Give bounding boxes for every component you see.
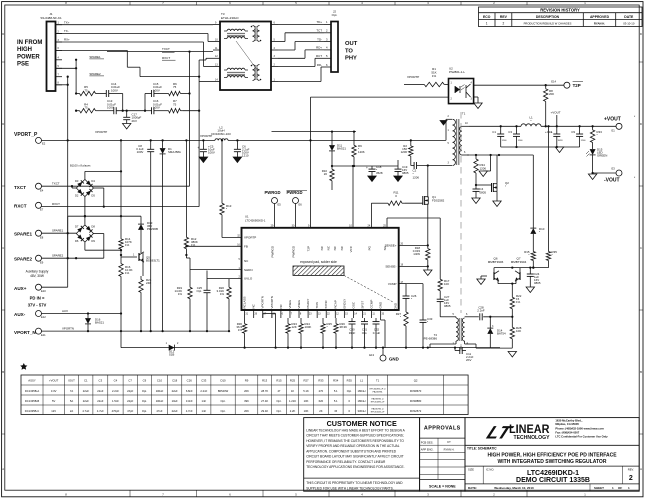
transformer T3 ETH1-230LD box (220, 22, 271, 91)
svg-text:FDS2582: FDS2582 (432, 199, 445, 203)
svg-text:SHEET: SHEET (594, 486, 604, 490)
ground below U2 (474, 103, 482, 108)
svg-text:E3: E3 (612, 167, 616, 171)
wire T3.2 to J2.5 (278, 66, 315, 68)
svg-text:VPORT_P: VPORT_P (14, 132, 38, 138)
svg-text:D9: D9 (91, 239, 95, 243)
ground left of Q6 (481, 275, 487, 277)
T3 pin 14 stub (213, 81, 220, 83)
Linear Technology logo (482, 423, 517, 443)
wire SPARE2 (42, 257, 104, 259)
svg-text:TXCT: TXCT (14, 185, 26, 190)
T3 internal diagonal lead (236, 41, 258, 71)
svg-text:T1: T1 (376, 378, 380, 382)
resistor R26 38.3K (335, 318, 337, 321)
svg-text:DC1335B-B: DC1335B-B (25, 399, 40, 403)
wire C14 corner down (122, 94, 124, 111)
capacitor C17 1000pF 2KV (126, 110, 128, 112)
svg-text:ECO: ECO (483, 15, 491, 19)
wire T2 secondary bottom (464, 341, 466, 344)
svg-text:C4: C4 (114, 378, 118, 382)
svg-text:1630 McCarthy Blvd.,: 1630 McCarthy Blvd., (555, 418, 582, 422)
svg-text:Opt.: Opt. (197, 289, 203, 293)
wire R12 to FB (185, 252, 187, 258)
svg-text:S1B: S1B (169, 353, 175, 357)
svg-text:180nH: 180nH (358, 389, 366, 393)
J1 pin 7 stub (56, 76, 63, 78)
capacitor C1 1206 (500, 126, 502, 134)
resistor R9 1206 (353, 130, 355, 132)
resistor R22 15 1% (511, 284, 513, 294)
svg-text:PCB DES.: PCB DES. (421, 440, 434, 444)
svg-text:0805: 0805 (534, 281, 541, 285)
svg-text:5.1K: 5.1K (303, 389, 309, 393)
wire Q6/Q7 base bar (488, 271, 490, 281)
svg-text:TECHNOLOGY APPLICATIONS ENGINE: TECHNOLOGY APPLICATIONS ENGINEERING FOR … (306, 465, 404, 469)
svg-text:2: 2 (503, 22, 505, 26)
svg-text:PA2469NL: PA2469NL (373, 390, 384, 393)
svg-text:Opt.: Opt. (142, 389, 147, 393)
wire -VOUT (593, 172, 616, 174)
svg-text:AUX: AUX (62, 309, 68, 313)
svg-text:DATE:: DATE: (468, 486, 477, 490)
wire RXCT vertical (198, 60, 200, 207)
svg-text:E1: E1 (612, 129, 616, 133)
svg-text:RD-: RD- (317, 63, 322, 67)
resistor R23 12K (287, 318, 289, 321)
diode D11 BAS21 (331, 130, 333, 132)
svg-text:1206: 1206 (502, 140, 508, 142)
T3 pin 3 stub (271, 57, 278, 59)
svg-text:B1100 x 8 places: B1100 x 8 places (70, 164, 91, 168)
J1 pin 8 stub (56, 84, 63, 86)
diode bridge D3 D4 D2 D5 (76, 179, 85, 188)
svg-text:E5: E5 (278, 203, 282, 207)
svg-text:2.2nF: 2.2nF (200, 389, 207, 393)
svg-text:20K: 20K (549, 92, 554, 96)
svg-text:Opt.: Opt. (332, 13, 338, 17)
svg-text:Opt.: Opt. (347, 389, 352, 393)
wire aux left vertical (67, 216, 69, 287)
wire T3.6 to J2.1 (278, 23, 324, 25)
svg-text:RYAN H.: RYAN H. (444, 447, 455, 451)
svg-text:SPARE1: SPARE1 (14, 231, 32, 236)
svg-text:24K: 24K (146, 281, 151, 285)
svg-text:100: 100 (444, 282, 449, 286)
svg-text:EPC3410G-LF: EPC3410G-LF (371, 411, 385, 413)
resistor R25 (322, 318, 324, 321)
svg-text:TD+: TD+ (316, 20, 322, 24)
resistor R34 1206 (475, 155, 477, 159)
svg-text:10K: 10K (304, 399, 309, 403)
J1 pin 4 stub (56, 59, 63, 61)
capacitor C11 2.2nF 2KV (455, 350, 466, 352)
junction dots bottom rail (243, 346, 245, 348)
svg-text:6.8nF: 6.8nF (186, 389, 193, 393)
svg-text:1206: 1206 (358, 150, 365, 154)
wire collector bar (494, 267, 549, 269)
svg-text:DC1335B-A: DC1335B-A (25, 389, 40, 393)
svg-text:D5: D5 (91, 194, 95, 198)
svg-text:VCC: VCC (349, 245, 353, 252)
diode D16 BAS21 (87, 314, 89, 319)
wire T3.5 to J2.2 (278, 41, 285, 43)
svg-text:LTC4269IDKD-1: LTC4269IDKD-1 (527, 470, 579, 477)
svg-text:1.5nF: 1.5nF (112, 399, 119, 403)
terminal -VOUT E3 (616, 170, 622, 176)
transformer T1 secondary winding (460, 126, 462, 155)
svg-text:HIGH: HIGH (17, 47, 32, 53)
wire TXCT to bridge1 (42, 185, 190, 187)
svg-text:1206: 1206 (401, 150, 408, 154)
ground below C24 (526, 287, 534, 292)
wire x121 column (120, 140, 122, 236)
svg-text:RXCT: RXCT (162, 56, 170, 60)
svg-text:20K: 20K (244, 389, 249, 393)
svg-text:Opt.: Opt. (276, 409, 281, 413)
wire cap ground rail (501, 146, 580, 148)
svg-text:RYAN H.: RYAN H. (594, 22, 605, 26)
svg-text:1206: 1206 (480, 167, 487, 171)
svg-text:DO1606C-103: DO1606C-103 (211, 132, 231, 136)
svg-text:1/2W: 1/2W (413, 252, 420, 256)
capacitor C31 Opt (364, 318, 366, 322)
svg-text:PDZ36B: PDZ36B (147, 227, 158, 231)
T3 pin 6 stub (271, 24, 278, 26)
inductor L2 10uH DO1606C-103 (215, 139, 228, 141)
svg-text:OUT: OUT (345, 41, 358, 47)
svg-text:2.2nF: 2.2nF (477, 309, 485, 313)
resistor R14 107K 1% (120, 236, 122, 239)
wire Q1 drain-source vertical (427, 166, 429, 198)
wire SPARE1 to bridge2 (42, 232, 77, 234)
svg-text:1: 1 (486, 22, 488, 26)
svg-text:E8: E8 (40, 235, 44, 239)
wire secondary top rail (469, 125, 521, 127)
svg-text:33pF: 33pF (349, 331, 356, 335)
wire SG chain down (439, 218, 441, 276)
size ic no rev row (482, 466, 484, 484)
svg-text:Opt.: Opt. (221, 399, 226, 403)
T3 pin 5 stub (271, 41, 278, 43)
ground below C4 (472, 198, 480, 203)
svg-text:LTC Confidential-For Customer: LTC Confidential-For Customer Use Only (555, 434, 608, 438)
svg-text:GREEN: GREEN (597, 154, 607, 158)
wire T1 pin6 output return (467, 154, 533, 156)
svg-text:22uF: 22uF (172, 389, 178, 393)
svg-text:VNEG: VNEG (288, 299, 292, 308)
svg-text:SCALE = NONE: SCALE = NONE (429, 484, 456, 488)
wire T3.1 to J2.6 (278, 81, 321, 83)
resistor R13 to VPORTP pin (221, 140, 223, 200)
svg-text:SUPPLIED FOR USE WITH LINEAR T: SUPPLIED FOR USE WITH LINEAR TECHNOLOGY … (306, 486, 394, 490)
svg-text:TD-: TD- (317, 37, 322, 41)
svg-text:APPROVED: APPROVED (590, 15, 610, 19)
svg-text:FDS2572: FDS2572 (410, 409, 422, 413)
svg-text:D10: D10 (220, 378, 226, 382)
svg-text:L1: L1 (360, 378, 364, 382)
svg-text:620: 620 (319, 399, 324, 403)
wire RX+ J1.3 to T3.13 (56, 41, 204, 43)
wire C27 to T2 (440, 316, 452, 318)
svg-text:75: 75 (84, 88, 88, 92)
svg-text:DEMO CIRCUIT 1335B: DEMO CIRCUIT 1335B (516, 477, 590, 484)
T3 pin 13 stub (213, 66, 220, 68)
svg-text:38.3K: 38.3K (340, 325, 348, 329)
wire rail to T1 pin2 (445, 119, 447, 140)
svg-text:VPORTN: VPORTN (270, 296, 274, 308)
svg-text:100V: 100V (107, 106, 114, 110)
svg-text:E7: E7 (40, 208, 44, 212)
svg-text:R15: R15 (276, 378, 282, 382)
svg-text:Opt.: Opt. (362, 331, 368, 335)
svg-text:CIRCUIT THAT MEETS CUSTOMER-SU: CIRCUIT THAT MEETS CUSTOMER-SUPPLIED SPE… (306, 434, 404, 438)
svg-text:0.1uF: 0.1uF (373, 331, 381, 335)
svg-text:POWER: POWER (17, 54, 40, 60)
svg-text:PWRGD: PWRGD (265, 190, 281, 195)
svg-text:B: B (640, 370, 642, 374)
svg-text:R25: R25 (290, 378, 296, 382)
J1 pin 3 stub (56, 41, 63, 43)
svg-text:APP ENG.: APP ENG. (421, 448, 434, 452)
wire J1.6 staircase to RXCT (56, 49, 128, 51)
ground below C19 (394, 176, 402, 181)
capacitor C15 0.01uF 100V (144, 94, 146, 111)
svg-text:3528: 3528 (558, 140, 564, 142)
wire VPORTN main rail (42, 330, 230, 332)
svg-text:E12: E12 (41, 315, 46, 319)
svg-text:SPARE2: SPARE2 (52, 254, 64, 258)
svg-text:IC NO.: IC NO. (486, 467, 494, 471)
diode D1 SMAJ58A (162, 140, 164, 148)
capacitor C28 2.2nF (469, 316, 479, 318)
svg-text:12V: 12V (51, 409, 56, 413)
svg-text:SMAJ58A: SMAJ58A (168, 150, 181, 154)
svg-text:HIGH POWER, HIGH EFFICIENCY PO: HIGH POWER, HIGH EFFICIENCY POE PD INTER… (487, 452, 617, 458)
svg-text:37V - 57V: 37V - 57V (28, 302, 47, 307)
svg-text:1210: 1210 (242, 154, 249, 158)
ground secondary return (479, 171, 487, 176)
wire SHDN from U1 (190, 269, 242, 271)
svg-text:PWRGD: PWRGD (271, 245, 275, 257)
svg-text:E9: E9 (40, 260, 44, 264)
capacitor C4 0805 (475, 177, 477, 189)
wire VPORTP main rail (42, 139, 216, 141)
resistor R28 10K (511, 324, 513, 327)
svg-text:BAS21: BAS21 (95, 321, 104, 325)
svg-text:C9: C9 (571, 130, 575, 134)
svg-text:RCAP: RCAP (333, 300, 337, 308)
resistor R33 (592, 126, 594, 130)
resistor R20 3.01K 1% (228, 279, 230, 284)
resistor R35 (547, 125, 549, 127)
svg-text:0805: 0805 (402, 171, 409, 175)
svg-text:100V: 100V (208, 151, 215, 155)
resistor R17 100 (439, 276, 441, 279)
wire GND pin down (380, 318, 382, 320)
svg-text:1nF: 1nF (201, 409, 206, 413)
capacitor C26 (405, 290, 407, 296)
svg-text:CCMP: CCMP (370, 300, 374, 309)
wire bridge1 bottom down (84, 197, 86, 217)
wire VCMP (399, 283, 406, 285)
svg-text:Opt.: Opt. (142, 399, 147, 403)
svg-text:THIS CIRCUIT IS PROPRIETARY TO: THIS CIRCUIT IS PROPRIETARY TO LINEAR TE… (306, 481, 403, 485)
diode bridge D7 D8 D6 D9 (76, 225, 85, 234)
J2 pin 2 TCT (324, 32, 331, 34)
capacitor C18 3528 polarized (371, 166, 373, 169)
wire AUX- to D16 (42, 313, 122, 315)
capacitor C8 0.1uF 100V (150, 140, 152, 149)
ground below C5 (199, 157, 207, 162)
svg-text:D8: D8 (91, 224, 95, 228)
transformer T1 core (456, 119, 458, 165)
resistor R21 24K (142, 253, 144, 276)
svg-text:SHDN: SHDN (244, 268, 253, 272)
svg-text:0805: 0805 (480, 191, 487, 195)
resistor R36 36.9 1% (244, 318, 246, 321)
capacitor C33 (422, 284, 424, 320)
J1 pin 2 stub (56, 33, 63, 35)
J2 pin 4 RD+ (324, 49, 331, 51)
svg-text:SIZE: SIZE (468, 467, 474, 471)
wire U2 LED return (311, 96, 449, 98)
J1 pin 1 stub (56, 24, 63, 26)
J2 pin 1 TD+ (324, 23, 331, 25)
wire TXCT from T3.11 (107, 51, 213, 53)
wire to +VOUT (541, 125, 616, 127)
junction dots on rail (67, 139, 69, 141)
resistor R11 0 (385, 202, 388, 204)
svg-text:VCMP: VCMP (388, 282, 397, 286)
svg-text:2K: 2K (319, 409, 322, 413)
svg-text:REVISION HISTORY: REVISION HISTORY (540, 8, 580, 13)
T3 pin 4 stub (271, 49, 278, 51)
svg-text:T2P: T2P (573, 83, 581, 88)
svg-text:47uF: 47uF (156, 409, 162, 413)
svg-text:PWRGD: PWRGD (292, 245, 296, 257)
svg-text:Wednesday, March 10, 2010: Wednesday, March 10, 2010 (494, 486, 534, 490)
svg-text:39K: 39K (244, 399, 249, 403)
svg-text:E13: E13 (369, 353, 374, 357)
svg-text:SFST: SFST (361, 301, 365, 309)
svg-text:R13: R13 (262, 378, 268, 382)
svg-text:5.1: 5.1 (334, 389, 338, 393)
svg-text:T2P: T2P (307, 246, 311, 252)
svg-text:A: A (2, 467, 4, 471)
svg-text:RXCT: RXCT (52, 202, 60, 206)
wire SENSE- from U1 (399, 265, 428, 267)
customer notice box (304, 418, 420, 492)
wire bias rail (272, 131, 357, 133)
capacitor C13 0.01uF 100V (113, 107, 115, 114)
svg-text:BAT54: BAT54 (497, 332, 506, 336)
svg-text:T1: T1 (462, 112, 466, 116)
IC U1 LTC4269IDKD-1 body (242, 228, 399, 310)
T3 pin 12 stub (213, 57, 220, 59)
svg-text:22pF: 22pF (127, 389, 133, 393)
svg-text:22uF: 22uF (172, 409, 178, 413)
svg-text:7A: 7A (70, 389, 73, 393)
connector J1 SS-6488-NF-K1 (47, 22, 56, 92)
svg-text:E4: E4 (40, 188, 44, 192)
resistor R10 20 (331, 166, 333, 169)
svg-text:TECHNOLOGY: TECHNOLOGY (514, 435, 551, 441)
capacitor C9 1206 (579, 126, 581, 134)
svg-text:SS-6488-NF-K1: SS-6488-NF-K1 (40, 16, 62, 20)
svg-text:ASSY: ASSY (28, 378, 36, 382)
svg-text:Fax: (408)434-0507: Fax: (408)434-0507 (555, 431, 579, 435)
svg-text:VNEG: VNEG (297, 299, 301, 308)
svg-text:DESCRIPTION: DESCRIPTION (536, 15, 560, 19)
resistor R19 14.0K 1% (189, 258, 191, 284)
resistor R1 51K 1% (420, 84, 424, 86)
svg-text:75: 75 (173, 85, 177, 89)
svg-text:03-10-10: 03-10-10 (623, 22, 635, 26)
svg-text:12K: 12K (292, 325, 297, 329)
svg-text:470pF: 470pF (112, 409, 120, 413)
svg-text:SPARE1: SPARE1 (52, 229, 64, 233)
svg-text:RCT: RCT (316, 54, 322, 58)
svg-text:5V: 5V (52, 399, 55, 403)
wire bottom rail (121, 347, 500, 349)
svg-text:2: 2 (629, 475, 633, 482)
svg-text:TXCT: TXCT (52, 182, 60, 186)
svg-text:PG: PG (367, 245, 371, 250)
wire aux bus y216 (68, 215, 141, 217)
svg-text:A: A (640, 467, 642, 471)
svg-text:PRODUCTION REBUILD W CHANGES: PRODUCTION REBUILD W CHANGES (524, 21, 572, 25)
svg-text:TITLE: SCHEMATIC: TITLE: SCHEMATIC (467, 447, 497, 451)
svg-text:TON: TON (315, 302, 319, 308)
resistor R12 380K 1% (185, 140, 187, 234)
svg-text:PA2369NL or: PA2369NL or (371, 397, 384, 400)
svg-text:SPARE1: SPARE1 (89, 55, 101, 59)
capacitor C24 1uF 16V 0805 (529, 268, 531, 274)
svg-text:3.3V: 3.3V (51, 389, 57, 393)
diode D10 (532, 155, 534, 228)
svg-text:TX+: TX+ (64, 20, 70, 24)
svg-text:VPORTN: VPORTN (261, 296, 265, 308)
svg-text:1K: 1K (291, 389, 294, 393)
svg-text:100V: 100V (153, 88, 160, 92)
svg-text:R9: R9 (245, 378, 249, 382)
svg-text:22pF: 22pF (127, 399, 133, 403)
svg-text:D4: D4 (91, 179, 95, 183)
svg-text:47pF: 47pF (127, 409, 133, 413)
svg-text:D3: D3 (75, 179, 79, 183)
svg-text:3528: 3528 (376, 171, 383, 175)
svg-text:Opt.: Opt. (221, 409, 226, 413)
wire R22 to node (511, 312, 513, 324)
svg-text:1%: 1% (178, 292, 183, 296)
approvals box (420, 418, 465, 492)
title block box (465, 418, 639, 492)
snubber ground arrow at T1 pin2 (440, 121, 447, 125)
svg-text:C9: C9 (143, 378, 147, 382)
wire RXCT from T3.12 (206, 57, 213, 59)
svg-text:2A: 2A (70, 409, 73, 413)
MOSFET Q1 FDS2582 (405, 202, 423, 204)
svg-text:E14: E14 (551, 79, 556, 83)
svg-text:10K: 10K (304, 409, 309, 413)
svg-text:FDS8670: FDS8670 (410, 389, 422, 393)
svg-text:RX+: RX+ (64, 38, 70, 42)
wire bottom bar D14 (490, 347, 512, 349)
capacitor C2 1206 (410, 159, 412, 166)
svg-text:0805: 0805 (444, 304, 451, 308)
svg-text:C3: C3 (508, 130, 512, 134)
